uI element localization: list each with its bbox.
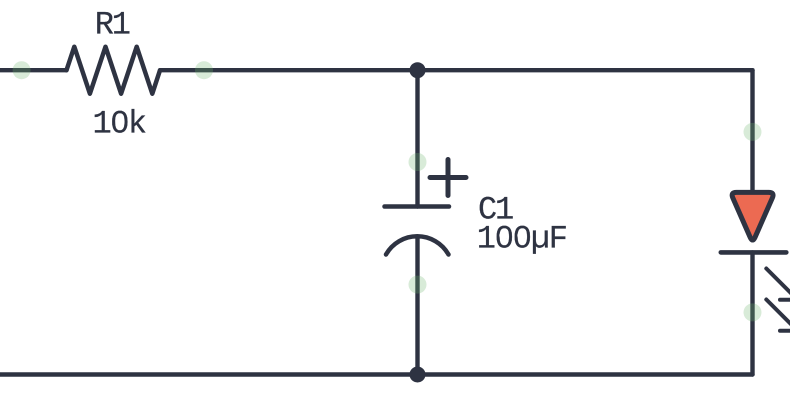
wire right branch down to LED	[750, 70, 754, 192]
wire node A to top-right corner	[418, 68, 753, 72]
mask dot of first zero in 100µF	[499, 231, 507, 239]
capacitor C1 top plate	[385, 204, 450, 209]
junction node B	[410, 367, 426, 383]
capacitor C1 top lead wire	[415, 70, 419, 206]
mask dot of zero in 10k	[115, 116, 123, 124]
terminal dot C1 bottom	[409, 276, 427, 294]
capacitor C1 bottom lead wire	[415, 237, 419, 375]
LED D1 cathode bar	[721, 250, 787, 255]
LED emission arrow 1	[766, 269, 790, 300]
wire top-left to resistor	[0, 68, 67, 72]
LED D1 triangle	[732, 192, 773, 240]
terminal dot LED top	[744, 123, 762, 141]
terminal dot LED bottom	[744, 303, 762, 321]
wire bottom rail	[0, 372, 753, 376]
wire resistor to node A	[160, 68, 418, 72]
terminal dot right of R1	[195, 61, 213, 79]
terminal dot C1 top	[409, 153, 427, 171]
mask dot of second zero in 100µF	[517, 231, 525, 239]
polarity plus sign of C1	[430, 160, 466, 196]
LED emission arrow 2	[766, 300, 790, 331]
terminal dot left of R1	[13, 61, 31, 79]
svg-text:R1: R1	[95, 7, 130, 44]
capacitor C1 curved bottom plate	[386, 236, 449, 254]
junction node A	[410, 62, 426, 78]
resistor R1	[67, 47, 161, 94]
wire LED cathode down to bottom-right corner	[750, 252, 754, 374]
